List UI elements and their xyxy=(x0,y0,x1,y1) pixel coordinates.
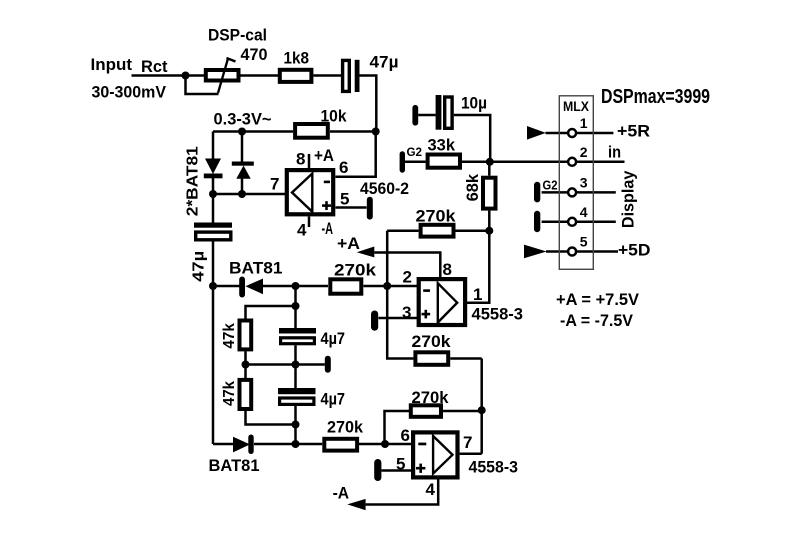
svg-text:3: 3 xyxy=(402,303,411,322)
svg-text:270k: 270k xyxy=(412,388,450,407)
svg-text:4: 4 xyxy=(580,204,588,220)
svg-text:+A = +7.5V: +A = +7.5V xyxy=(556,291,639,309)
svg-text:10µ: 10µ xyxy=(461,94,487,113)
svg-text:-A: -A xyxy=(333,484,350,503)
svg-text:+A: +A xyxy=(314,146,334,165)
svg-text:5: 5 xyxy=(396,455,405,474)
svg-text:+A: +A xyxy=(337,234,360,253)
svg-text:-A = -7.5V: -A = -7.5V xyxy=(560,312,633,330)
svg-text:68k: 68k xyxy=(463,173,482,201)
svg-text:1: 1 xyxy=(580,115,588,131)
svg-text:+5R: +5R xyxy=(617,122,650,141)
svg-text:7: 7 xyxy=(270,175,279,194)
svg-text:270k: 270k xyxy=(327,418,364,437)
svg-text:+5D: +5D xyxy=(618,241,651,260)
svg-text:6: 6 xyxy=(401,426,410,445)
svg-text:-A: -A xyxy=(322,219,334,238)
svg-text:470: 470 xyxy=(241,45,268,64)
svg-text:1k8: 1k8 xyxy=(284,49,310,68)
svg-text:47k: 47k xyxy=(221,381,238,406)
svg-text:Display: Display xyxy=(619,170,638,228)
svg-text:0.3-3V~: 0.3-3V~ xyxy=(214,110,272,129)
svg-text:1: 1 xyxy=(473,285,482,304)
svg-text:in: in xyxy=(608,143,621,162)
svg-text:4µ7: 4µ7 xyxy=(321,329,346,348)
svg-text:2: 2 xyxy=(403,268,412,287)
svg-text:7: 7 xyxy=(463,433,472,452)
svg-text:30-300mV: 30-300mV xyxy=(92,83,167,102)
svg-text:270k: 270k xyxy=(416,207,457,226)
svg-text:8: 8 xyxy=(443,260,452,279)
svg-text:10k: 10k xyxy=(321,107,347,126)
svg-text:5: 5 xyxy=(580,234,588,250)
svg-text:2*BAT81: 2*BAT81 xyxy=(185,146,202,216)
svg-text:DSP-cal: DSP-cal xyxy=(208,26,267,45)
svg-text:5: 5 xyxy=(340,190,349,209)
svg-text:G2: G2 xyxy=(543,178,558,193)
svg-text:33k: 33k xyxy=(428,136,456,155)
svg-text:BAT81: BAT81 xyxy=(229,259,283,278)
svg-text:4: 4 xyxy=(297,221,307,240)
svg-text:270k: 270k xyxy=(412,332,452,351)
svg-text:270k: 270k xyxy=(334,261,377,280)
svg-text:BAT81: BAT81 xyxy=(209,456,260,475)
svg-text:47µ: 47µ xyxy=(191,251,208,282)
svg-text:4µ7: 4µ7 xyxy=(321,390,346,409)
svg-text:6: 6 xyxy=(339,158,348,177)
svg-text:2: 2 xyxy=(580,144,588,160)
svg-text:4560-2: 4560-2 xyxy=(360,179,409,198)
svg-text:Rct: Rct xyxy=(141,57,168,76)
svg-text:3: 3 xyxy=(580,175,588,191)
svg-text:G2: G2 xyxy=(407,145,423,159)
svg-text:4558-3: 4558-3 xyxy=(469,458,519,477)
svg-text:47k: 47k xyxy=(221,323,238,349)
svg-text:MLX: MLX xyxy=(563,99,589,114)
svg-text:47µ: 47µ xyxy=(370,53,399,72)
svg-text:4558-3: 4558-3 xyxy=(472,305,524,324)
svg-text:DSPmax=3999: DSPmax=3999 xyxy=(601,86,710,108)
svg-text:Input: Input xyxy=(91,55,133,74)
svg-text:8: 8 xyxy=(296,150,305,169)
svg-text:4: 4 xyxy=(426,480,436,499)
